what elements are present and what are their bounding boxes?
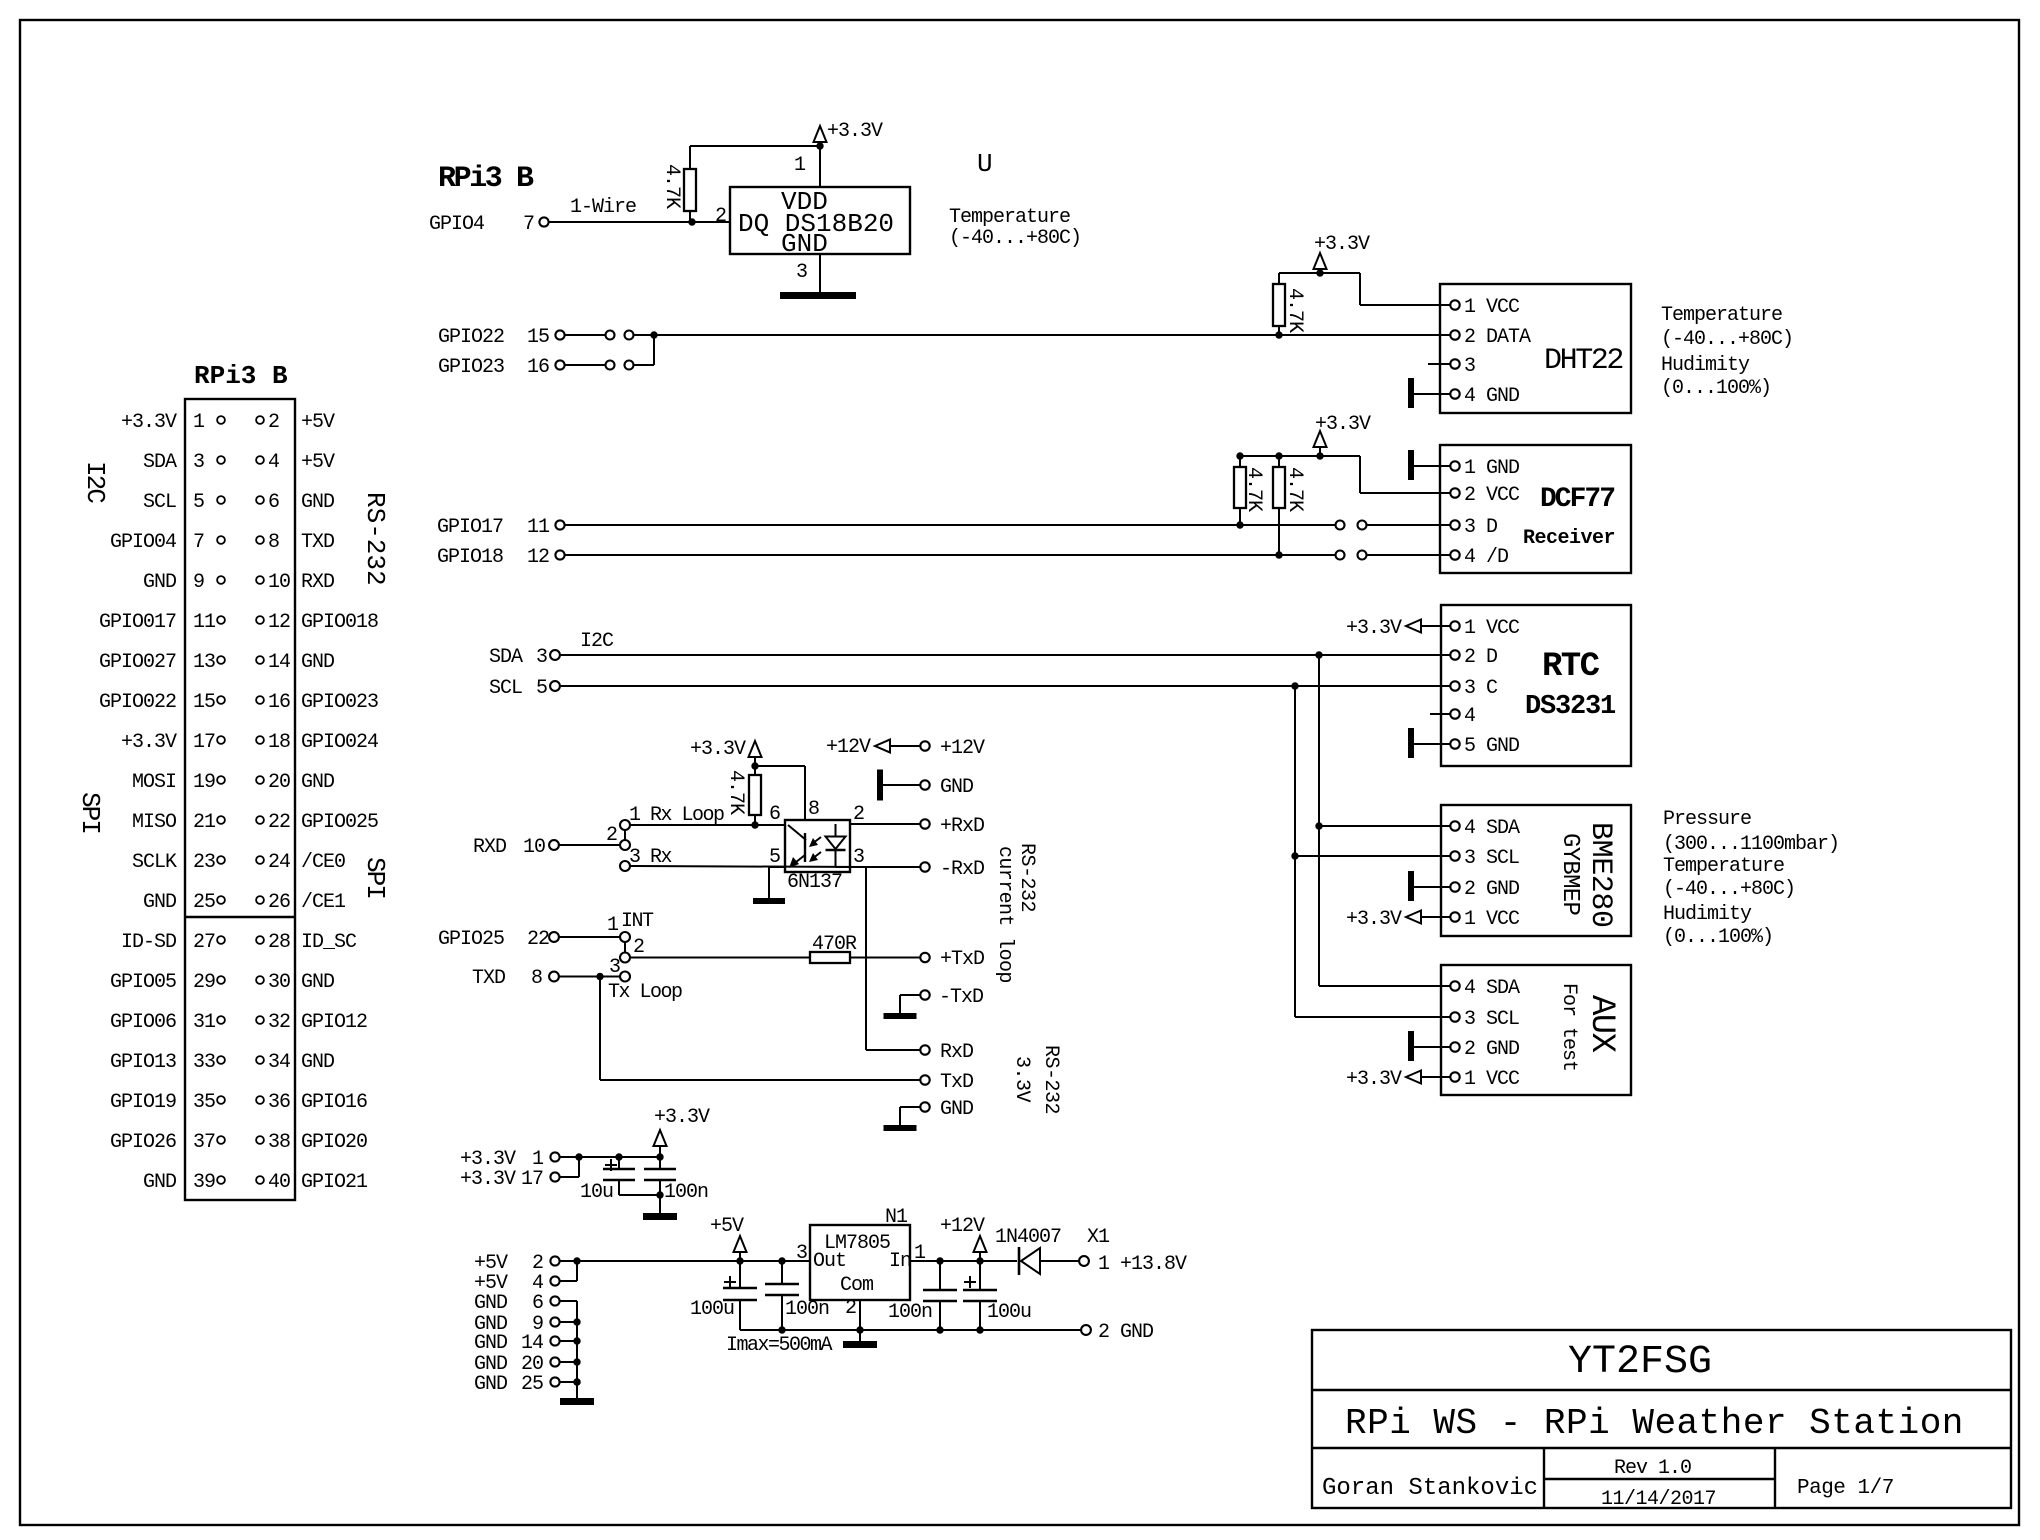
- junction 100u-b bottom: [976, 1326, 983, 1333]
- jumper J-b circles: [606, 361, 615, 370]
- pin 1 VCC (AUX): [1441, 1076, 1451, 1078]
- svg-text:22: 22: [268, 811, 290, 834]
- wire GPIO23 to jumper: [565, 364, 606, 366]
- jumper Tx pin1: [620, 932, 630, 942]
- junction 100u-b top: [976, 1257, 983, 1264]
- pin 4 SDA (BME280): [1450, 821, 1459, 830]
- wire AUX SDA corner: [1319, 985, 1451, 987]
- wire GPIO22 to jumper: [565, 334, 606, 336]
- opto light arrows: [812, 837, 821, 844]
- svg-text:470R: 470R: [812, 933, 857, 956]
- ground (-TxD): [884, 1013, 917, 1019]
- pin -RxD terminal: [920, 862, 929, 871]
- svg-text:Pressure: Pressure: [1663, 808, 1751, 831]
- ground (DCF77 pin1): [1408, 450, 1414, 480]
- svg-text:1 VCC: 1 VCC: [1464, 1068, 1520, 1091]
- svg-text:35: 35: [193, 1091, 215, 1114]
- svg-text:SCLK: SCLK: [132, 851, 177, 874]
- svg-text:17: 17: [521, 1168, 543, 1191]
- wire to gnd bus: [560, 1321, 577, 1323]
- svg-text:+3.3V: +3.3V: [121, 411, 177, 434]
- opto LED diode: [835, 824, 837, 837]
- svg-text:10u: 10u: [580, 1181, 613, 1204]
- junction 100n-b bottom: [936, 1326, 943, 1333]
- svg-text:1: 1: [794, 154, 806, 177]
- svg-text:2: 2: [606, 824, 617, 847]
- svg-text:MISO: MISO: [132, 811, 176, 834]
- svg-text:-TxD: -TxD: [939, 986, 983, 1009]
- wire BME280 SDA: [1319, 825, 1451, 827]
- junction R pullup / DQ: [688, 218, 695, 225]
- svg-text:RS-232: RS-232: [1015, 843, 1038, 912]
- pin X1-2 terminal: [1081, 1325, 1091, 1335]
- wire to gnd bus: [560, 1381, 577, 1383]
- pin +5V-2 terminal: [550, 1256, 559, 1265]
- junction R2/GPIO18 line: [1275, 551, 1282, 558]
- junction rail/R2: [1275, 452, 1282, 459]
- title block vertical 2: [1774, 1448, 1776, 1508]
- svg-text:2: 2: [268, 411, 279, 434]
- junction +3.3V DHT22: [1316, 269, 1323, 276]
- wire AUX SCL corner: [1295, 1016, 1451, 1018]
- svg-text:4: 4: [268, 451, 279, 474]
- wire +3.3V rail DCF77: [1240, 455, 1320, 457]
- svg-text:6: 6: [769, 803, 780, 826]
- pin 2 VCC (DCF77): [1441, 492, 1451, 494]
- svg-text:36: 36: [268, 1091, 290, 1114]
- svg-text:GND: GND: [301, 1051, 334, 1074]
- ground (RTC pin5): [1408, 728, 1414, 758]
- svg-text:U: U: [977, 149, 993, 179]
- junction 100n-a top: [778, 1257, 785, 1264]
- svg-text:8: 8: [808, 798, 819, 821]
- wire 470R to +TxD pin: [850, 957, 920, 959]
- svg-text:+3.3V: +3.3V: [1346, 908, 1402, 931]
- svg-text:100u: 100u: [690, 1298, 734, 1321]
- svg-text:4.7K: 4.7K: [1242, 467, 1265, 512]
- wire +5V rail to LM7805 Out: [577, 1260, 810, 1262]
- svg-text:1 VCC: 1 VCC: [1464, 908, 1520, 931]
- wire TXD to jumper pin3: [559, 976, 620, 978]
- wire caps bottoms join: [619, 1194, 660, 1196]
- pin TXD terminal: [549, 972, 559, 982]
- svg-text:3: 3: [193, 451, 204, 474]
- svg-text:Temperature: Temperature: [1663, 855, 1784, 878]
- pin +3.3V-17 terminal: [550, 1172, 559, 1181]
- capacitor 100u electrolytic (in): [979, 1261, 981, 1289]
- svg-text:15: 15: [193, 691, 215, 714]
- svg-text:4.7K: 4.7K: [1283, 288, 1306, 333]
- title block vertical 1: [1543, 1448, 1545, 1508]
- svg-text:GPIO023: GPIO023: [301, 691, 378, 714]
- svg-text:34: 34: [268, 1051, 290, 1074]
- svg-text:Rev 1.0: Rev 1.0: [1614, 1457, 1691, 1480]
- svg-text:4.7K: 4.7K: [660, 164, 683, 209]
- pin 2 DATA (DHT22): [1441, 334, 1451, 336]
- pin +3.3V-1 terminal: [550, 1152, 559, 1161]
- opto phototransistor: [788, 825, 806, 840]
- svg-text:39: 39: [193, 1171, 215, 1194]
- svg-text:+5V: +5V: [301, 451, 335, 474]
- IC BME280 box: [1441, 805, 1631, 936]
- svg-text:2 GND: 2 GND: [1464, 1038, 1519, 1061]
- svg-text:+12V: +12V: [826, 736, 871, 759]
- wire Rx loop pin1 to 6N137 pin6: [630, 824, 785, 826]
- junction +5V rows: [573, 1257, 580, 1264]
- jumper DCF77 D circles: [1336, 521, 1345, 530]
- svg-text:GPIO22: GPIO22: [438, 326, 504, 349]
- jumper Rx pin3: [620, 861, 630, 871]
- ground (DHT22 pin4): [1408, 378, 1414, 408]
- regulator N1 LM7805 box: [810, 1225, 910, 1300]
- svg-text:RS-232: RS-232: [360, 492, 390, 586]
- wire SCL bus vertical: [1294, 686, 1296, 1017]
- svg-text:Com: Com: [840, 1274, 873, 1297]
- title block rev/date divider: [1544, 1478, 1775, 1480]
- ground rail: [740, 1329, 1081, 1331]
- svg-text:4 SDA: 4 SDA: [1464, 817, 1520, 840]
- resistor 4.7K pullup DS18B20: [684, 169, 696, 211]
- ground (GPIO GND): [560, 1398, 594, 1405]
- svg-text:GND: GND: [143, 891, 176, 914]
- svg-text:RPi3 B: RPi3 B: [438, 162, 534, 196]
- svg-text:7: 7: [193, 531, 204, 554]
- jumper Tx pin3: [620, 972, 630, 982]
- svg-text:SDA: SDA: [489, 646, 523, 669]
- svg-text:GND: GND: [474, 1292, 507, 1315]
- svg-text:3: 3: [536, 646, 547, 669]
- svg-text:3 D: 3 D: [1464, 516, 1497, 539]
- svg-text:1: 1: [607, 914, 619, 937]
- svg-text:32: 32: [268, 1011, 290, 1034]
- capacitor 100n ceramic (in): [939, 1261, 941, 1289]
- capacitor 100n ceramic: [659, 1157, 661, 1168]
- ground (BME280 pin2): [1408, 871, 1414, 901]
- wire to gnd bus: [560, 1300, 577, 1302]
- svg-text:GPIO21: GPIO21: [301, 1171, 368, 1194]
- wire pin5 to ground: [769, 866, 785, 868]
- resistor 4.7K (GPIO18 pullup): [1273, 467, 1285, 508]
- jumper Tx pin2: [620, 953, 630, 963]
- svg-text:30: 30: [268, 971, 290, 994]
- svg-text:6N137: 6N137: [787, 871, 842, 894]
- ground GND terminal (loop): [877, 770, 883, 801]
- title block row line 1: [1312, 1389, 2011, 1391]
- wire DATA line to DHT22: [654, 334, 1440, 336]
- junction +3.3V opto: [751, 762, 758, 769]
- svg-text:2: 2: [845, 1297, 856, 1320]
- svg-text:GPIO05: GPIO05: [110, 971, 176, 994]
- svg-text:+3.3V: +3.3V: [1346, 1068, 1402, 1091]
- svg-text:2 VCC: 2 VCC: [1464, 484, 1520, 507]
- svg-text:26: 26: [268, 891, 290, 914]
- svg-text:22: 22: [527, 928, 549, 951]
- svg-text:SCL: SCL: [143, 491, 176, 514]
- svg-text:TXD: TXD: [472, 967, 505, 990]
- svg-text:GPIO027: GPIO027: [99, 651, 176, 674]
- wire GND out to ground: [900, 1106, 920, 1108]
- junction +3.3V DCF77: [1316, 452, 1323, 459]
- svg-text:GPIO04: GPIO04: [110, 531, 176, 554]
- pin GND-6 terminal: [550, 1296, 559, 1305]
- svg-text:(-40...+80C): (-40...+80C): [1661, 328, 1793, 351]
- wire BME280 SCL: [1295, 855, 1451, 857]
- junction SDA bus tap: [1315, 651, 1322, 658]
- pin GND-25 terminal: [550, 1377, 559, 1386]
- junction +3.3V rows: [575, 1153, 582, 1160]
- svg-text:+3.3V: +3.3V: [1315, 413, 1371, 436]
- resistor 4.7K (opto pullup): [749, 775, 761, 815]
- capacitor 10u electrolytic: [618, 1157, 620, 1168]
- svg-text:4 /D: 4 /D: [1464, 546, 1508, 569]
- svg-text:14: 14: [521, 1332, 543, 1355]
- svg-text:YT2FSG: YT2FSG: [1568, 1340, 1712, 1385]
- pin SDA terminal: [550, 650, 560, 660]
- svg-text:TXD: TXD: [301, 531, 334, 554]
- wire -RxD: [850, 866, 920, 868]
- svg-text:17: 17: [193, 731, 215, 754]
- svg-text:+3.3V: +3.3V: [690, 738, 746, 761]
- svg-text:Hudimity: Hudimity: [1663, 903, 1752, 926]
- svg-text:7: 7: [523, 213, 534, 236]
- wire In rail: [910, 1260, 1017, 1262]
- svg-text:Hudimity: Hudimity: [1661, 354, 1750, 377]
- svg-text:SPI: SPI: [360, 857, 390, 898]
- svg-text:I2C: I2C: [80, 461, 110, 503]
- wire GPIO18 line: [565, 554, 1336, 556]
- svg-text:RTC: RTC: [1542, 648, 1600, 686]
- title block row line 2: [1312, 1447, 2011, 1449]
- svg-text:10: 10: [268, 571, 290, 594]
- svg-text:+TxD: +TxD: [940, 948, 984, 971]
- wire Rx pin3 down to RxD out: [630, 866, 866, 867]
- wire +3.3V rail caps: [579, 1156, 660, 1158]
- svg-text:3 C: 3 C: [1464, 677, 1498, 700]
- svg-text:19: 19: [193, 771, 215, 794]
- wire jumper to junction: [634, 334, 655, 336]
- svg-text:21: 21: [193, 811, 216, 834]
- svg-text:Temperature: Temperature: [1661, 304, 1782, 327]
- svg-text:9: 9: [193, 571, 204, 594]
- svg-text:GPIO13: GPIO13: [110, 1051, 176, 1074]
- svg-text:16: 16: [527, 356, 549, 379]
- svg-text:SCL: SCL: [489, 677, 522, 700]
- svg-text:GYBMEP: GYBMEP: [1556, 833, 1583, 916]
- svg-text:100n: 100n: [664, 1181, 708, 1204]
- svg-text:In: In: [889, 1250, 911, 1273]
- svg-text:(-40...+80C): (-40...+80C): [949, 227, 1081, 250]
- jumper Tx link 1-2: [624, 942, 626, 953]
- svg-text:4.7K: 4.7K: [724, 770, 747, 815]
- svg-text:X1: X1: [1087, 1226, 1110, 1249]
- svg-text:+RxD: +RxD: [940, 815, 984, 838]
- svg-text:GND: GND: [474, 1373, 507, 1396]
- pin +5V-4 terminal: [550, 1276, 559, 1285]
- svg-text:38: 38: [268, 1131, 290, 1154]
- resistor 4.7K pullup DHT22: [1273, 284, 1285, 326]
- junction 10u top: [615, 1153, 622, 1160]
- pin 2 D (RTC): [1441, 654, 1451, 656]
- wire TxD 3.3V out: [599, 977, 601, 1081]
- svg-text:Imax=500mA: Imax=500mA: [726, 1334, 833, 1357]
- svg-text:15: 15: [527, 326, 549, 349]
- svg-text:GND: GND: [301, 771, 334, 794]
- svg-text:SDA: SDA: [143, 451, 177, 474]
- pin 4 /D (DCF77): [1367, 554, 1451, 556]
- svg-text:RXD: RXD: [301, 571, 334, 594]
- svg-text:5: 5: [193, 491, 204, 514]
- pin RxD 3.3V terminal: [920, 1045, 929, 1054]
- svg-text:INT: INT: [621, 910, 654, 933]
- pin 3 SCL (BME280): [1450, 851, 1459, 860]
- ground (AUX pin2): [1408, 1031, 1414, 1061]
- svg-text:+3.3V: +3.3V: [1314, 233, 1370, 256]
- svg-text:4.7K: 4.7K: [1283, 467, 1306, 512]
- pin -TxD terminal: [920, 990, 929, 999]
- svg-text:GPIO022: GPIO022: [99, 691, 176, 714]
- svg-text:3: 3: [1464, 355, 1475, 378]
- svg-text:+5V: +5V: [301, 411, 335, 434]
- wire SDA to RTC D: [560, 654, 1441, 656]
- svg-text:+12V: +12V: [940, 1215, 985, 1238]
- jumper Rx pin1: [620, 820, 630, 830]
- svg-text:1 +13.8V: 1 +13.8V: [1098, 1253, 1187, 1276]
- svg-text:10: 10: [523, 836, 545, 859]
- svg-text:20: 20: [268, 771, 290, 794]
- svg-text:GPIO17: GPIO17: [437, 516, 503, 539]
- svg-text:23: 23: [193, 851, 215, 874]
- svg-text:100u: 100u: [987, 1301, 1031, 1324]
- wire GPIO25 to jumper pin1: [559, 936, 620, 938]
- pin 3 nc (DHT22): [1428, 363, 1451, 365]
- svg-text:GPIO19: GPIO19: [110, 1091, 176, 1114]
- svg-text:GPIO024: GPIO024: [301, 731, 378, 754]
- svg-text:3: 3: [796, 261, 807, 284]
- svg-text:2: 2: [715, 205, 726, 228]
- svg-text:100n: 100n: [888, 1301, 932, 1324]
- svg-text:18: 18: [268, 731, 290, 754]
- svg-text:GPIO26: GPIO26: [110, 1131, 176, 1154]
- svg-text:BME280: BME280: [1583, 822, 1617, 928]
- junction resistor/Rx loop: [751, 821, 758, 828]
- pin 1 VCC (BME280): [1441, 916, 1451, 918]
- pin +RxD terminal: [920, 819, 929, 828]
- svg-text:28: 28: [268, 931, 290, 954]
- svg-text:27: 27: [193, 931, 215, 954]
- svg-text:DHT22: DHT22: [1544, 344, 1622, 378]
- svg-text:RPi WS - RPi Weather Station: RPi WS - RPi Weather Station: [1345, 1403, 1964, 1444]
- pin 3 SCL (AUX): [1450, 1012, 1459, 1021]
- svg-text:+3.3V: +3.3V: [654, 1106, 710, 1129]
- ground (6N137 pin5): [753, 898, 785, 904]
- svg-text:37: 37: [193, 1131, 215, 1154]
- svg-text:8: 8: [268, 531, 279, 554]
- svg-text:DS3231: DS3231: [1525, 692, 1616, 722]
- svg-text:+5V: +5V: [710, 1215, 744, 1238]
- pin GND-20 terminal: [550, 1357, 559, 1366]
- svg-text:2: 2: [853, 803, 864, 826]
- jumper Rx pin2: [620, 840, 630, 850]
- svg-text:4 SDA: 4 SDA: [1464, 977, 1520, 1000]
- svg-text:24: 24: [268, 851, 290, 874]
- svg-text:4 GND: 4 GND: [1464, 385, 1519, 408]
- capacitor 100n ceramic (out): [781, 1261, 783, 1283]
- svg-text:100n: 100n: [785, 1298, 829, 1321]
- pin GND-9 terminal: [550, 1317, 559, 1326]
- svg-text:1-Wire: 1-Wire: [570, 196, 636, 219]
- svg-text:+12V: +12V: [940, 737, 985, 760]
- svg-text:ID_SC: ID_SC: [301, 931, 357, 954]
- wire -TxD to ground: [900, 994, 920, 996]
- pin RXD terminal: [549, 840, 559, 850]
- svg-text:33: 33: [193, 1051, 215, 1074]
- wire +3.3V to pin8: [755, 765, 805, 767]
- wire +5V rows join: [560, 1280, 577, 1282]
- svg-text:11: 11: [527, 516, 550, 539]
- svg-text:1 GND: 1 GND: [1464, 457, 1519, 480]
- pin 3 C (RTC): [1441, 685, 1451, 687]
- pin 4 nc (RTC): [1430, 713, 1451, 715]
- svg-text:GPIO23: GPIO23: [438, 356, 504, 379]
- svg-text:(0...100%): (0...100%): [1661, 377, 1771, 400]
- gnd bus vertical: [576, 1301, 578, 1398]
- svg-text:1: 1: [193, 411, 205, 434]
- svg-text:11/14/2017: 11/14/2017: [1601, 1488, 1716, 1511]
- svg-text:GND: GND: [301, 651, 334, 674]
- junction caps ground: [656, 1191, 663, 1198]
- svg-text:3 SCL: 3 SCL: [1464, 1008, 1519, 1031]
- GPIO header split line: [185, 916, 295, 918]
- svg-text:3 SCL: 3 SCL: [1464, 847, 1519, 870]
- svg-text:GND: GND: [143, 571, 176, 594]
- IC DCF77 box: [1440, 445, 1631, 573]
- IC U DS18B20 box: [730, 187, 910, 254]
- wire 1-Wire GPIO4 to DS18B20 DQ: [549, 221, 730, 223]
- IC 6N137 box: [785, 820, 850, 872]
- pin GND-14 terminal: [550, 1336, 559, 1345]
- wire resistor top to +3.3V rail: [689, 146, 691, 169]
- pin GPIO17 terminal: [555, 520, 564, 529]
- wire to gnd bus: [560, 1340, 577, 1342]
- svg-text:GPIO025: GPIO025: [301, 811, 378, 834]
- svg-text:3: 3: [796, 1242, 807, 1265]
- svg-text:GPIO16: GPIO16: [301, 1091, 367, 1114]
- svg-text:RS-232: RS-232: [1039, 1045, 1062, 1114]
- pin +TxD terminal: [920, 953, 929, 962]
- svg-text:Page 1/7: Page 1/7: [1797, 1477, 1894, 1500]
- svg-text:GND: GND: [301, 491, 334, 514]
- svg-text:6: 6: [532, 1292, 543, 1315]
- svg-text:current loop: current loop: [993, 846, 1016, 983]
- wire jumper up to junction: [634, 364, 655, 366]
- svg-text:TxD: TxD: [940, 1071, 973, 1094]
- svg-text:12: 12: [268, 611, 290, 634]
- svg-text:/CE1: /CE1: [301, 891, 346, 914]
- svg-text:GPIO12: GPIO12: [301, 1011, 367, 1034]
- title block frame: [1312, 1330, 2011, 1508]
- resistor 470R: [810, 952, 850, 963]
- wire diode connections: [1040, 1260, 1079, 1262]
- svg-text:RPi3 B: RPi3 B: [194, 361, 288, 391]
- wire SCL to RTC C: [560, 685, 1441, 687]
- svg-text:29: 29: [193, 971, 215, 994]
- svg-text:GND: GND: [143, 1171, 176, 1194]
- junction 100n top: [656, 1153, 663, 1160]
- svg-text:AUX: AUX: [1582, 995, 1620, 1053]
- svg-text:For test: For test: [1557, 983, 1580, 1071]
- junction DATA/resistor: [1275, 331, 1282, 338]
- svg-text:4: 4: [1464, 705, 1475, 728]
